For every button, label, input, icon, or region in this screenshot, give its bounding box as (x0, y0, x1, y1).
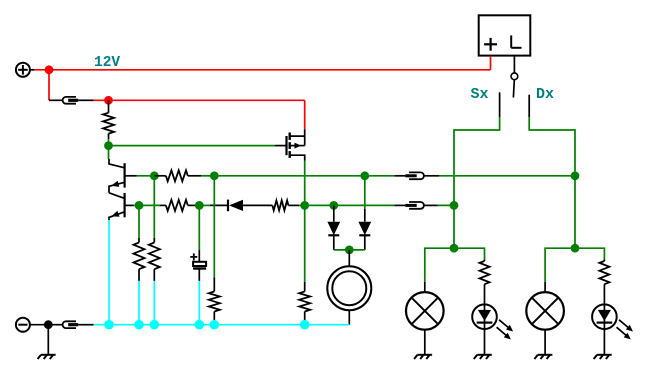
transistor Q2 base lead (125, 204, 134, 206)
mosfet Q3 gate lead (275, 145, 287, 147)
wire green to LP2 (right indicator) (545, 248, 575, 282)
wire buzzer top lead (348, 250, 350, 266)
svg-text:Sx: Sx (471, 86, 489, 103)
resistor R8 (299, 292, 310, 312)
wire R7 upper lead (213, 277, 215, 291)
wire red down to fuse row (48, 70, 50, 101)
led LED2 (592, 304, 633, 339)
wire R6b lower lead (153, 269, 155, 325)
buzzer BZ1 (327, 266, 371, 310)
wire buzzer bottom lead (348, 310, 350, 325)
diode D3 (228, 200, 243, 212)
wire D3 anode to R5 (243, 204, 272, 206)
wire green row1 a (137, 175, 155, 177)
switch lever (512, 80, 515, 98)
ground LP2 (right indicator) (534, 330, 552, 359)
junction cyan R6b (150, 320, 160, 330)
mosfet Q3 source stub (290, 155, 305, 160)
ground main (38, 325, 56, 359)
resistor R6b (149, 243, 160, 270)
wire green row2 e (438, 204, 455, 206)
wire R4 right lead (188, 204, 200, 206)
mosfet Q3 drain stub (290, 130, 305, 137)
junction row2 C1 top (195, 201, 204, 210)
transistor Q2 collector (109, 193, 125, 199)
connector K1 row1 (394, 172, 439, 179)
wire R6a upper lead (138, 238, 140, 243)
wire red 12V bus (34, 69, 490, 71)
wire green row1 e (439, 175, 575, 177)
junction Sx lamp branch (450, 244, 459, 253)
capacitor C1 plus sign (190, 253, 197, 260)
wire C1 lower lead (198, 269, 200, 325)
switch contact Sx (499, 92, 501, 117)
switch stem (513, 56, 515, 73)
junction Dx lamp branch (571, 244, 580, 253)
svg-text:Dx: Dx (536, 86, 554, 103)
switch contact Dx (528, 95, 530, 117)
resistor R10 (599, 261, 609, 284)
wire green to R9 (454, 248, 485, 259)
junction row2 D1 top (329, 201, 338, 210)
wire cyan Q2 emitter to ground bus (108, 220, 110, 325)
wire negative lead (30, 324, 48, 326)
resistor R5 (272, 200, 288, 210)
wire R4 left lead (160, 204, 166, 206)
wire D1 bottom lead (333, 235, 335, 250)
svg-text:12V: 12V (94, 55, 120, 71)
switch pivot (511, 73, 518, 80)
wire LP1 (left indicator) top lead (424, 282, 426, 292)
mosfet Q3 gate bar (285, 136, 287, 155)
diode D2 (358, 222, 371, 236)
junction cyan R8 (300, 320, 310, 330)
wire R10 to LED2 (603, 284, 605, 304)
wire R7 lower lead (213, 312, 215, 325)
wire green R6a top (138, 205, 140, 237)
box L terminal mark (511, 35, 521, 47)
junction row1 D2 top (360, 171, 369, 180)
wire green R7 top (213, 176, 215, 277)
wire green row2 c (305, 204, 334, 206)
wire R2 right lead (188, 175, 201, 177)
junction cyan C1 (195, 320, 205, 330)
wire row2 to D3 cathode (210, 204, 228, 206)
connector (fuse) F2 (48, 321, 93, 328)
resistor R7 (209, 292, 220, 312)
transistor Q1 collector (109, 159, 125, 168)
wire R9 to LED1 (484, 284, 486, 304)
led LED1 (472, 304, 513, 339)
wire R10 top lead (603, 260, 605, 262)
wire D2 top lead (364, 209, 366, 222)
wire green R8 top (304, 205, 306, 282)
lamp LP1 (left indicator) (406, 292, 444, 330)
wire red down MOSFET source (304, 100, 306, 129)
wire R5 right lead (288, 204, 304, 206)
wire green collector feed (108, 146, 110, 159)
junction row1 R2 left (150, 171, 159, 180)
transistor Q1 base bar (123, 163, 125, 187)
wire green row2 C1 to D3 (199, 204, 210, 206)
ground LED1 (474, 329, 492, 359)
wire green Dx feed (529, 117, 575, 248)
junction red at 12V feed (45, 65, 54, 74)
wire R9 top lead (484, 260, 486, 262)
transistor Q1 emitter (109, 181, 125, 193)
wire cyan ground bus (94, 324, 350, 326)
wire R8 lower lead (304, 312, 306, 325)
wire LP2 (right indicator) top lead (544, 282, 546, 292)
wire R8 upper lead (304, 282, 306, 292)
wire green row2 a (134, 204, 140, 206)
junction cyan R7 (210, 320, 220, 330)
wire R1 bottom lead (108, 134, 110, 146)
wire R6a lower lead (138, 269, 140, 325)
lamp LP2 (right indicator) (526, 292, 564, 330)
wire green row1 c (214, 175, 364, 177)
transistor Q2 base bar (123, 193, 125, 217)
resistor R4 (166, 200, 188, 211)
wire green row1 b (201, 175, 214, 177)
transistor Q1 base lead (125, 175, 137, 177)
wire R2 left lead (154, 175, 166, 177)
resistor R6a (134, 243, 145, 270)
resistor R9 (480, 261, 490, 284)
mosfet Q3 bulk stub (290, 136, 305, 149)
ground LED2 (594, 329, 612, 359)
box + terminal mark (484, 38, 497, 51)
resistor R1 (103, 113, 114, 134)
junction row2 MOSFET drain (300, 201, 309, 210)
wire green R6b top (153, 176, 155, 238)
resistor R2 (166, 170, 188, 181)
junction row2 R6a top (135, 201, 144, 210)
wire green row2 d (334, 204, 395, 206)
wire red fuse to MOSFET source (94, 99, 305, 101)
junction cyan R6a (134, 320, 144, 330)
wire green row1 d (365, 175, 395, 177)
wire green Sx feed (454, 117, 500, 248)
wire green diode join (334, 249, 365, 251)
wire green MOSFET drain down (304, 161, 306, 206)
capacitor C1 (193, 262, 206, 269)
wire green to LP1 (left indicator) (425, 248, 454, 282)
junction red at R1 top (104, 96, 113, 105)
wire D2 bottom lead (364, 235, 366, 250)
wire D1 top lead (333, 205, 335, 221)
transistor Q2 emitter (109, 211, 125, 220)
node gate junction (104, 141, 113, 150)
wire green D2 top (364, 176, 366, 209)
junction diode join (345, 246, 354, 255)
battery and switch unit box (479, 15, 531, 55)
negative battery terminal (16, 318, 30, 332)
junction cyan Q2e (104, 320, 114, 330)
diode D1 (327, 222, 340, 236)
ground LP1 (left indicator) (414, 330, 432, 359)
mosfet Q3 channel bar (289, 133, 291, 158)
connector K2 row2 (394, 202, 437, 209)
wire R1 top lead (108, 100, 110, 112)
wire R6b upper lead (153, 238, 155, 243)
junction row1 R7 top (210, 171, 219, 180)
connector (fuse) F1 (49, 97, 94, 104)
junction row2 to Sx column (450, 201, 459, 210)
wire green to R10 (575, 248, 604, 259)
wire green C1 top (198, 205, 200, 250)
positive battery terminal (16, 63, 34, 77)
wire green row2 b (139, 204, 160, 206)
junction row1 to Dx column (571, 171, 580, 180)
wire C1 upper lead (198, 250, 200, 262)
wire green gate line (109, 145, 276, 147)
wire red from box + down (490, 56, 492, 70)
junction ground tap (44, 320, 53, 329)
